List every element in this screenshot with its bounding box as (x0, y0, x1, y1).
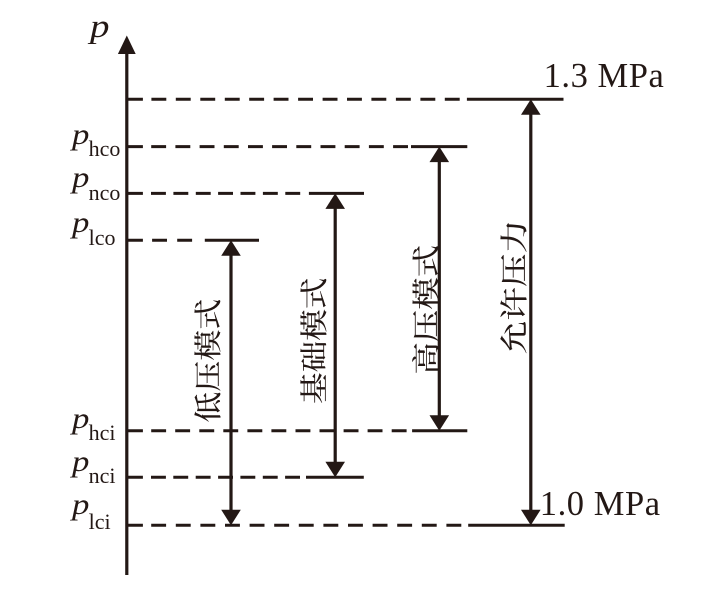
vertical label 低压模式 (low-pressure mode) (194, 300, 220, 422)
label p_nco (72, 163, 89, 193)
label 1.0 MPa (540, 487, 661, 522)
double arrow allowable pressure range (521, 99, 541, 525)
p axis vertical line with arrow (118, 36, 136, 576)
label p_lco (72, 208, 89, 238)
axis label p (90, 11, 109, 44)
dashed level line 1.3 MPa (128, 98, 564, 101)
double arrow low-pressure mode range (221, 240, 241, 525)
dashed level line p_hco (128, 145, 467, 148)
label p_hco (72, 120, 89, 150)
label 1.3 MPa (544, 59, 665, 94)
label p_nci (72, 447, 89, 477)
label p_lci (72, 490, 89, 520)
double arrow basic mode range (325, 193, 345, 477)
double arrow high-pressure mode range (430, 147, 450, 431)
dashed level line p_hci (128, 429, 467, 432)
vertical label 基础模式 (basic mode) (300, 279, 326, 403)
vertical label 高压模式 (high-pressure mode) (412, 246, 438, 373)
vertical label 允许压力 (allowable pressure) (500, 223, 526, 353)
dashed level line p_lci (128, 524, 565, 527)
dashed level line p_nci (128, 476, 364, 479)
dashed level line p_lco (128, 239, 259, 242)
dashed level line p_nco (128, 192, 364, 195)
label p_hci (72, 404, 89, 434)
